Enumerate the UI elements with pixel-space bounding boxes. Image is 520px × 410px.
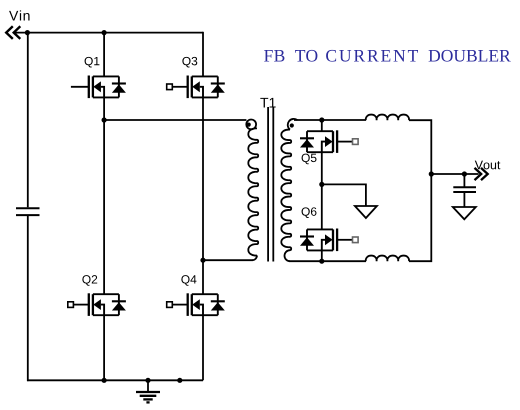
wire cap to ground arrow (463, 192, 465, 207)
wire Q6 drain (321, 184, 323, 229)
transformer T1 primary winding (248, 128, 258, 255)
transistor Q1 (71, 76, 126, 99)
transformer T1 secondary top curl (288, 119, 298, 130)
junction dot output cap (462, 171, 467, 176)
transistor Q3 (167, 76, 225, 99)
wire node C to ground arrow (322, 184, 366, 206)
label Q2 (82, 275, 97, 286)
transistor Q2 (68, 293, 126, 316)
junction dot bottom rail (177, 378, 182, 383)
inductor L1 top (366, 115, 409, 121)
title text FB TO CURRENT DOUBLER (264, 50, 511, 62)
wire secondary top rail (294, 119, 366, 121)
wire secondary bottom rail (290, 260, 367, 262)
label Q1 (85, 57, 100, 68)
capacitor C1 input (16, 208, 40, 215)
wire Q5 drain (321, 120, 323, 131)
junction dot Q1 drain (102, 30, 107, 35)
wire output cap stem (463, 174, 465, 187)
input port chevrons (6, 26, 20, 39)
wire Q3 drain (202, 32, 204, 77)
junction dot input branch (25, 30, 30, 35)
label T1 (260, 98, 275, 108)
wire Q1 source to node A (103, 97, 105, 121)
wire Q4 source (202, 315, 204, 380)
junction dot node C (319, 182, 324, 187)
wire Q3 source to Q4 drain (202, 97, 204, 294)
transistor Q6 (300, 229, 358, 252)
transformer T1 secondary bottom lead (285, 250, 291, 261)
transformer T1 core (268, 107, 273, 262)
junction dot Q2 source (102, 378, 107, 383)
label Q3 (182, 57, 197, 68)
ground symbol (136, 380, 160, 402)
junction dot Q5 drain (319, 117, 324, 122)
wire right rail lower (409, 174, 431, 261)
junction dot output node (429, 171, 434, 176)
wire L1 to right rail (409, 120, 431, 174)
label Vin (9, 10, 29, 20)
ground arrow middle (355, 206, 377, 218)
wire Q5 source to node C (321, 152, 323, 184)
junction dot Q6 source (319, 259, 324, 264)
junction dot node A (102, 117, 107, 122)
junction dot ground stem (145, 378, 150, 383)
wire bottom rail (27, 379, 203, 381)
wire Q2 drain (103, 120, 105, 294)
junction dot node B (200, 258, 205, 263)
transformer T1 secondary winding (281, 130, 291, 251)
wire top rail (14, 32, 203, 34)
wire left branch upper (27, 33, 29, 208)
wire output (431, 173, 478, 175)
transistor Q4 (167, 293, 225, 316)
wire node B to primary bottom (203, 259, 253, 261)
inductor L2 bottom (366, 256, 409, 262)
label Vout (475, 161, 501, 170)
transistor Q5 (300, 130, 358, 153)
wire node A to primary top (104, 119, 246, 121)
wire Q1 drain (103, 33, 105, 77)
label Q5 (302, 154, 317, 165)
ground arrow output (453, 207, 476, 219)
transformer T1 primary bottom lead (252, 256, 257, 261)
transformer T1 primary top loop (246, 120, 256, 130)
output port chevrons (475, 168, 488, 180)
label Q4 (181, 275, 196, 286)
wire Q6 source (321, 250, 323, 261)
label Q6 (302, 207, 317, 218)
capacitor C2 output (453, 187, 476, 192)
transformer T1 secondary polarity dot (290, 123, 294, 127)
wire left branch lower (27, 216, 29, 381)
wire Q2 source (103, 315, 105, 380)
transformer T1 primary polarity dot (247, 123, 251, 127)
